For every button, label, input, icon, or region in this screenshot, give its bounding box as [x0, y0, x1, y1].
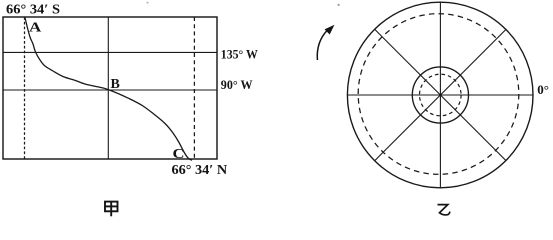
- radial spoke NW-SE diagonal: [375, 29, 506, 160]
- caption 甲 (drawn glyph): [105, 202, 118, 217]
- central meridian gridline (vertical): [107, 17, 109, 159]
- dashed meridian through A: [24, 17, 26, 159]
- map frame (rectangle of diagram 甲): [3, 17, 217, 159]
- dashed circle (polar circle 66°34′): [358, 14, 519, 175]
- svg-text:66° 34′ N: 66° 34′ N: [172, 162, 228, 177]
- radial spoke NE-SW diagonal: [375, 29, 506, 160]
- rotation direction arrow: [317, 26, 333, 60]
- terminator curve A-B-C: [25, 18, 192, 161]
- svg-text:0°: 0°: [537, 82, 549, 97]
- inner dashed circle: [420, 74, 462, 116]
- radial spoke vertical: [439, 2, 441, 188]
- svg-text:66° 34′ S: 66° 34′ S: [6, 1, 60, 16]
- svg-text:90° W: 90° W: [221, 77, 253, 92]
- scan speckle dot: [338, 4, 340, 6]
- radial spoke horizontal: [347, 94, 533, 96]
- svg-text:B: B: [111, 77, 120, 92]
- inner solid circle: [412, 67, 468, 123]
- svg-text:135° W: 135° W: [221, 47, 258, 62]
- caption 乙 (drawn glyph): [438, 205, 450, 215]
- svg-text:C: C: [173, 147, 185, 162]
- scan speckle dot top: [147, 2, 149, 4]
- dashed meridian through C: [193, 17, 195, 159]
- svg-text:A: A: [29, 21, 42, 36]
- gridline 90°W (horizontal): [3, 89, 217, 91]
- outer circle (equator): [347, 2, 533, 188]
- gridline 135°W (horizontal): [3, 51, 217, 53]
